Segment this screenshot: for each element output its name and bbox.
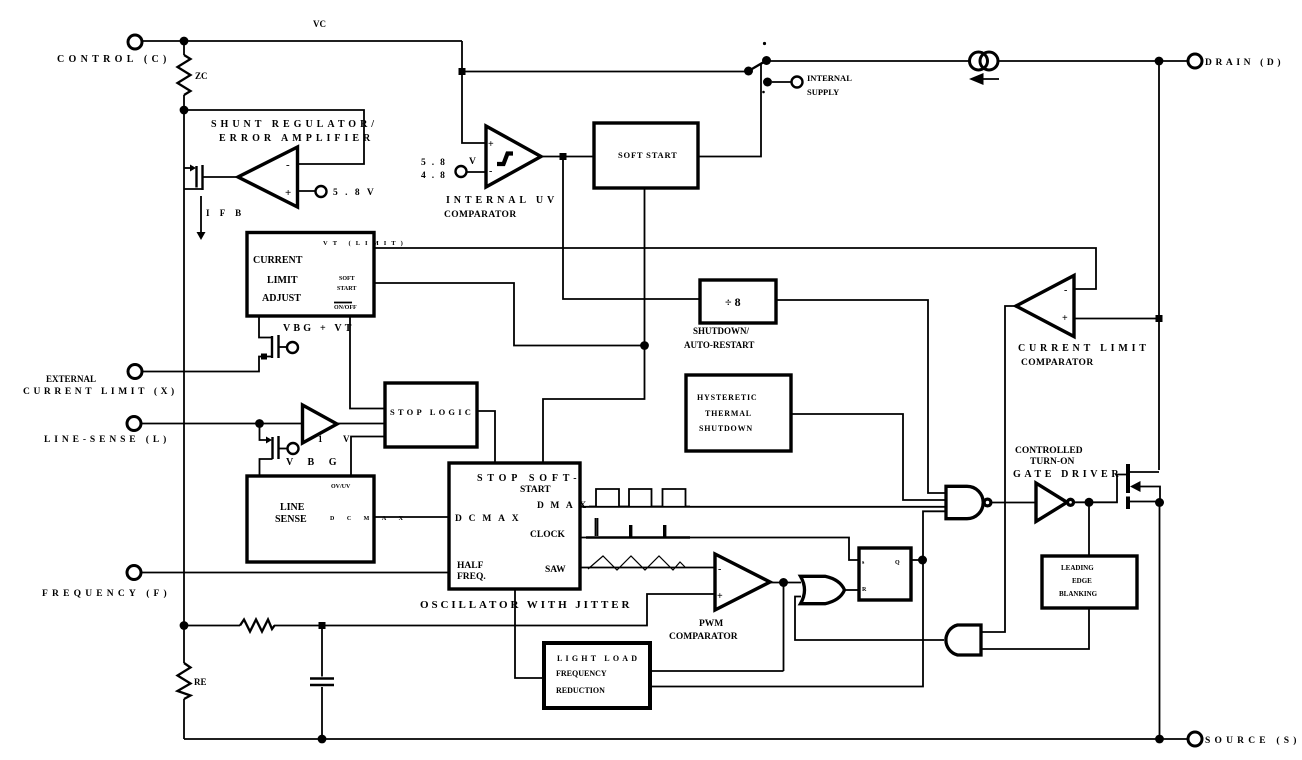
svg-text:INTERNAL: INTERNAL xyxy=(807,73,852,83)
transistor output MOSFET Q1 xyxy=(1128,464,1160,509)
wire bottom source rail xyxy=(184,738,1188,740)
svg-text:COMPARATOR: COMPARATOR xyxy=(444,210,517,220)
svg-text:+: + xyxy=(285,187,291,199)
wire divide-by-8 to NAND xyxy=(776,300,945,493)
op-amp CURRENT LIMIT comparator xyxy=(1016,276,1150,369)
svg-text:COMPARATOR: COMPARATOR xyxy=(669,632,738,642)
svg-text:ERROR AMPLIFIER: ERROR AMPLIFIER xyxy=(219,133,374,144)
svg-text:OSCILLATOR WITH JITTER: OSCILLATOR WITH JITTER xyxy=(420,599,632,611)
label INTERNAL UV COMPARATOR xyxy=(444,195,558,220)
svg-text:HYSTERETIC: HYSTERETIC xyxy=(697,393,757,402)
transistor shunt MOSFET xyxy=(184,165,239,191)
svg-text:CURRENT LIMIT (X): CURRENT LIMIT (X) xyxy=(23,386,178,397)
svg-text:LIMIT: LIMIT xyxy=(267,275,298,286)
wire internal supply xyxy=(772,81,792,83)
switch internal supply SW1 xyxy=(744,42,772,93)
and-gate U5 xyxy=(946,625,981,655)
svg-text:CLOCK: CLOCK xyxy=(530,530,565,540)
wire UV minus input xyxy=(468,171,487,173)
wire oscillator to light load xyxy=(515,589,544,678)
block HYSTERETIC THERMAL SHUTDOWN xyxy=(686,375,791,451)
wire NAND output xyxy=(991,502,1036,504)
svg-text:SOFT START: SOFT START xyxy=(618,150,678,160)
nand-gate U4 xyxy=(946,486,991,518)
svg-text:ZC: ZC xyxy=(195,71,208,81)
svg-text:BLANKING: BLANKING xyxy=(1059,590,1098,598)
waveform DMAX square wave xyxy=(589,489,690,507)
svg-text:THERMAL: THERMAL xyxy=(705,409,752,418)
svg-text:REDUCTION: REDUCTION xyxy=(556,686,605,695)
wire stop logic to oscillator xyxy=(477,411,495,463)
svg-text:4 . 8: 4 . 8 xyxy=(421,171,447,181)
svg-text:RE: RE xyxy=(194,677,207,687)
wire line sense input xyxy=(141,423,303,425)
svg-text:V: V xyxy=(343,434,350,444)
svg-text:SENSE: SENSE xyxy=(275,514,307,525)
svg-text:-: - xyxy=(718,564,721,575)
shunt regulator box xyxy=(184,110,378,164)
svg-text:COMPARATOR: COMPARATOR xyxy=(1021,358,1094,368)
wire VC top rail xyxy=(142,40,462,42)
node junction on bus xyxy=(180,621,189,630)
resistor RE xyxy=(178,663,207,739)
wire CLA soft start output xyxy=(374,283,645,346)
svg-text:AUTO-RESTART: AUTO-RESTART xyxy=(684,340,754,350)
svg-text:5 . 8 V: 5 . 8 V xyxy=(333,188,376,198)
svg-text:LIGHT LOAD: LIGHT LOAD xyxy=(557,654,640,663)
op-amp 1V buffer xyxy=(303,405,351,444)
node UV output junction xyxy=(560,153,567,160)
node square junction at VC branch xyxy=(459,68,466,75)
wire VC to switch xyxy=(462,71,745,73)
wire control bus xyxy=(183,110,185,663)
svg-text:FREQUENCY: FREQUENCY xyxy=(556,669,607,678)
svg-text:-: - xyxy=(489,166,492,177)
wire PWM output xyxy=(770,582,801,584)
wire thermal to NAND xyxy=(791,414,945,500)
node junction soft start net xyxy=(640,341,649,350)
node source junction xyxy=(1155,498,1164,507)
node capacitor junction xyxy=(319,622,326,629)
svg-text:SUPPLY: SUPPLY xyxy=(807,87,839,97)
svg-text:LINE-SENSE (L): LINE-SENSE (L) xyxy=(44,434,170,445)
node PWM output junction xyxy=(779,578,788,587)
svg-text:R: R xyxy=(862,587,867,593)
wire LEB to AND xyxy=(981,608,1089,649)
svg-text:FREQUENCY (F): FREQUENCY (F) xyxy=(42,588,171,599)
svg-text:CONTROL (C): CONTROL (C) xyxy=(57,54,171,65)
svg-text:TURN-ON: TURN-ON xyxy=(1030,457,1074,467)
wire drain vertical xyxy=(1158,61,1160,470)
block divide by 8 xyxy=(684,280,776,350)
latch SR flip-flop xyxy=(859,548,911,600)
svg-text:PWM: PWM xyxy=(699,619,723,629)
waveform SAW triangle wave xyxy=(588,556,685,570)
op-amp shunt error amplifier U1 xyxy=(238,147,298,207)
svg-text:1: 1 xyxy=(318,434,323,444)
svg-text:STOP SOFT-: STOP SOFT- xyxy=(477,473,581,484)
terminal 5.8 V reference xyxy=(316,186,377,198)
block LEADING EDGE BLANKING xyxy=(1042,556,1137,608)
svg-text:INTERNAL UV: INTERNAL UV xyxy=(446,195,558,206)
wire light load to NAND xyxy=(650,511,945,686)
svg-text:SHUTDOWN/: SHUTDOWN/ xyxy=(693,326,750,336)
svg-text:VT (LIMIT): VT (LIMIT) xyxy=(323,240,408,247)
current source IS xyxy=(969,52,999,85)
svg-text:DRAIN (D): DRAIN (D) xyxy=(1205,57,1284,68)
label IFB current arrow xyxy=(197,196,246,240)
wire VT limit to current limit comparator xyxy=(374,248,1096,289)
svg-text:LINE: LINE xyxy=(280,502,305,513)
transistor current limit MOSFET xyxy=(142,316,298,372)
svg-text:SAW: SAW xyxy=(545,565,566,575)
wire RC feedback line xyxy=(184,594,715,626)
resistor ZC xyxy=(178,41,208,110)
node drain junction xyxy=(1155,57,1164,66)
svg-text:V B G: V B G xyxy=(286,457,343,468)
node latch output junction xyxy=(918,556,927,565)
node MOSFET source to rail xyxy=(1155,735,1164,744)
svg-text:+: + xyxy=(717,591,723,602)
terminal FREQUENCY (F) xyxy=(42,566,171,600)
wire line sense dcmax out xyxy=(374,516,449,518)
resistor feedback R xyxy=(240,620,275,632)
wire UV output to soft start xyxy=(541,156,594,158)
block SOFT START xyxy=(594,123,698,188)
wire MOSFET source down xyxy=(1159,503,1161,740)
node junction on control bus xyxy=(180,37,189,46)
wire drain top rail xyxy=(770,60,970,62)
block CURRENT LIMIT ADJUST xyxy=(247,233,374,317)
svg-text:EXTERNAL: EXTERNAL xyxy=(46,374,96,384)
svg-text:SOURCE (S): SOURCE (S) xyxy=(1205,735,1301,746)
terminal DRAIN (D) xyxy=(1188,54,1284,68)
wire frequency input xyxy=(141,572,450,574)
transistor line sense MOSFET xyxy=(260,424,299,477)
terminal UV threshold xyxy=(456,166,467,177)
terminal SOURCE (S) xyxy=(1188,732,1301,746)
wire DMAX to NAND xyxy=(580,506,945,508)
svg-text:CURRENT LIMIT: CURRENT LIMIT xyxy=(1018,343,1150,354)
svg-text:EDGE: EDGE xyxy=(1072,577,1092,585)
svg-text:I F B: I F B xyxy=(206,208,245,218)
wire current limit plus input xyxy=(1074,318,1159,320)
svg-text:ON/OFF: ON/OFF xyxy=(334,305,357,311)
wire line sense to stop logic xyxy=(351,437,385,477)
block STOP LOGIC xyxy=(385,383,477,447)
capacitor C1 xyxy=(310,626,334,740)
wire current limit output to AND xyxy=(981,306,1016,632)
svg-text:-: - xyxy=(1064,285,1067,296)
wire soft start to switch xyxy=(698,64,761,157)
wire junction to LEB xyxy=(1088,502,1090,556)
svg-text:ADJUST: ADJUST xyxy=(262,293,301,304)
block LIGHT LOAD FREQUENCY REDUCTION xyxy=(544,643,650,708)
svg-text:STOP LOGIC: STOP LOGIC xyxy=(390,407,474,417)
op-amp PWM comparator xyxy=(669,554,770,642)
terminal EXTERNAL CURRENT LIMIT (X) xyxy=(23,365,178,398)
svg-text:SHUNT REGULATOR/: SHUNT REGULATOR/ xyxy=(211,119,378,130)
svg-text:OV/UV: OV/UV xyxy=(331,484,351,490)
terminal internal supply xyxy=(792,73,853,97)
wire UV output down to divide-by-8 xyxy=(563,157,700,299)
wire CLA to stop logic xyxy=(350,316,385,409)
svg-text:+: + xyxy=(488,139,494,150)
or-gate U3 xyxy=(801,576,845,603)
wire op-amp plus to 5.8V xyxy=(298,190,316,192)
node line sense junction xyxy=(255,419,264,428)
node current sense junction xyxy=(1156,315,1163,322)
node junction at shunt box xyxy=(180,106,189,115)
svg-text:FREQ.: FREQ. xyxy=(457,572,486,582)
terminal CONTROL (C) xyxy=(57,35,171,65)
wire light load to PWM net xyxy=(650,670,784,672)
wire buffer to stop logic xyxy=(337,423,385,425)
svg-text:CURRENT: CURRENT xyxy=(253,255,303,266)
svg-text:5 . 8: 5 . 8 xyxy=(421,158,447,168)
svg-text:GATE DRIVER: GATE DRIVER xyxy=(1013,469,1122,480)
svg-text:÷ 8: ÷ 8 xyxy=(725,295,741,309)
wire PWM output to light load xyxy=(783,583,785,672)
buffer gate driver xyxy=(1013,446,1122,522)
block OSCILLATOR WITH JITTER xyxy=(449,463,593,589)
wire CLOCK to latch xyxy=(580,538,859,561)
svg-text:DCMAX: DCMAX xyxy=(455,514,525,524)
svg-text:VBG + VT: VBG + VT xyxy=(283,323,355,334)
op-amp internal UV comparator U2 xyxy=(486,126,541,187)
wire AND output to OR xyxy=(795,597,944,641)
wire driver to gate xyxy=(1074,475,1126,503)
svg-text:START: START xyxy=(337,286,356,292)
svg-text:+: + xyxy=(1062,313,1068,324)
label 5.8V 4.8V thresholds xyxy=(421,157,476,181)
wire soft start bottom to oscillator xyxy=(543,188,645,463)
terminal LINE-SENSE (L) xyxy=(44,417,170,446)
svg-text:VC: VC xyxy=(313,19,326,29)
svg-text:V: V xyxy=(469,157,476,167)
svg-text:LEADING: LEADING xyxy=(1061,564,1094,572)
waveform CLOCK pulses xyxy=(586,518,690,538)
wire SAW to PWM comparator xyxy=(580,567,715,569)
wire OR output to latch xyxy=(846,589,860,591)
svg-text:SOFT: SOFT xyxy=(339,276,355,282)
svg-text:CONTROLLED: CONTROLLED xyxy=(1015,446,1083,456)
svg-text:START: START xyxy=(520,485,551,495)
wire VC down to UV comparator xyxy=(462,41,486,143)
node driver output junction xyxy=(1085,498,1094,507)
svg-text:SHUTDOWN: SHUTDOWN xyxy=(699,424,753,433)
svg-text:HALF: HALF xyxy=(457,561,484,571)
wire latch output xyxy=(911,559,923,561)
node capacitor to rail xyxy=(318,735,327,744)
svg-text:Q: Q xyxy=(895,560,900,566)
block LINE SENSE xyxy=(247,476,416,562)
svg-text:-: - xyxy=(286,159,290,171)
